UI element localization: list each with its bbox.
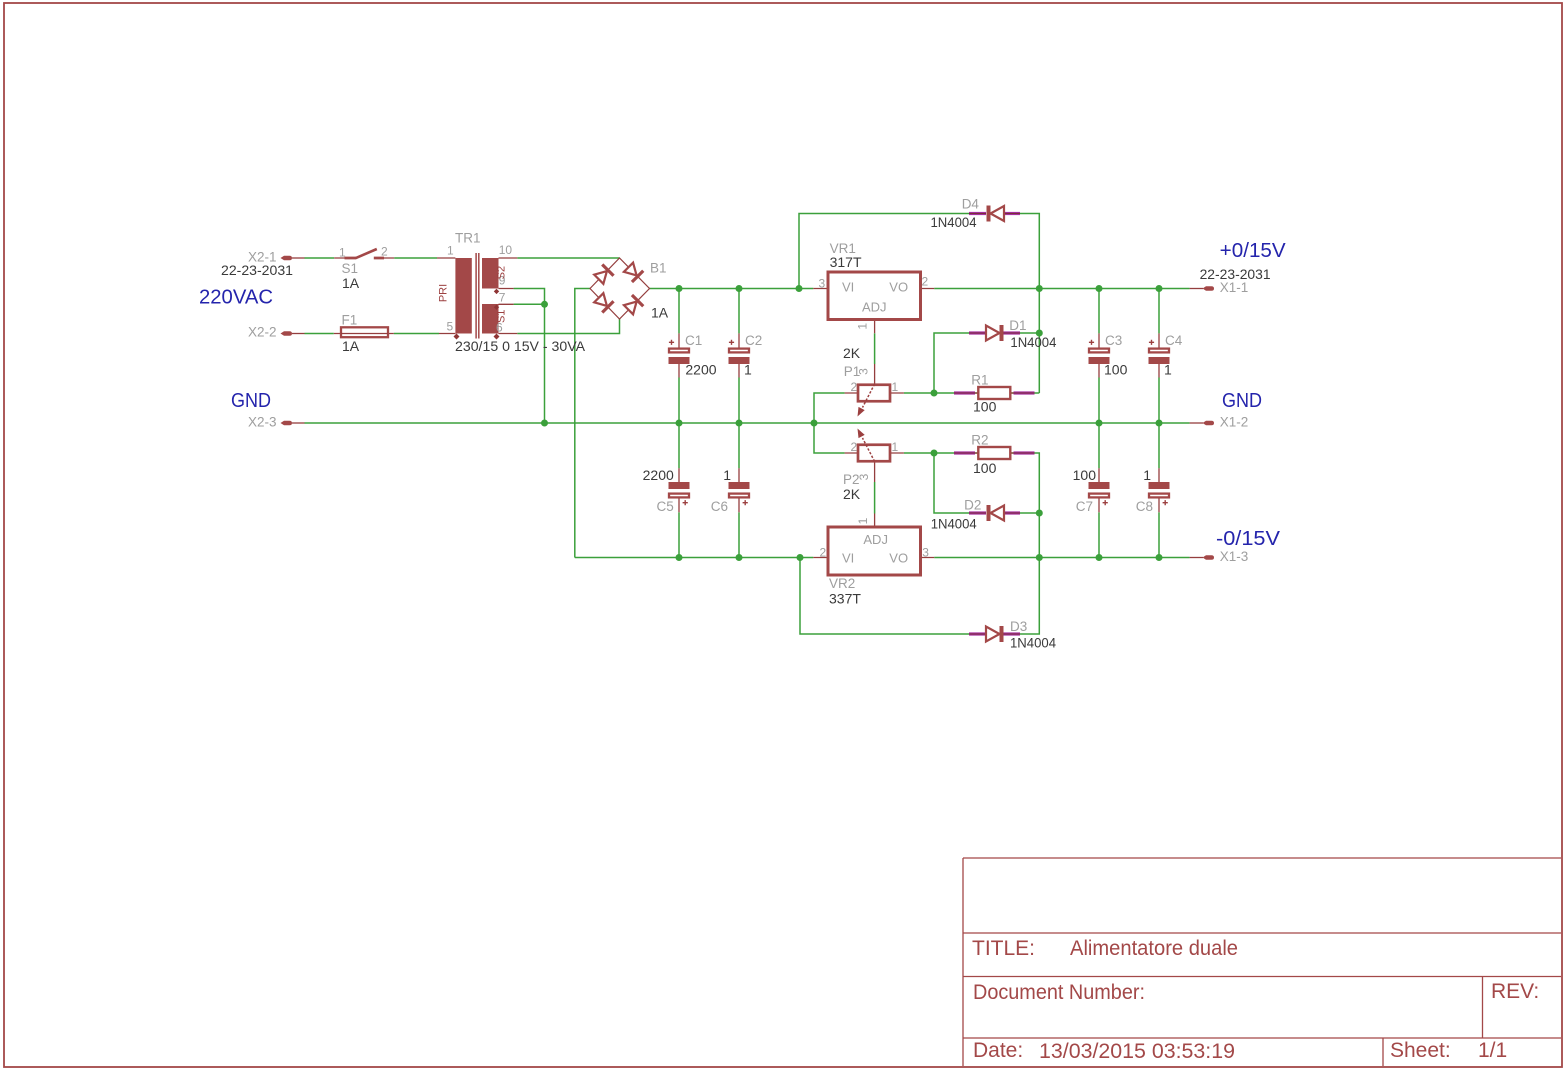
wire C7 upper lead: [1098, 423, 1100, 468]
svg-text:TITLE:: TITLE:: [972, 937, 1035, 960]
capacitor C2: [729, 333, 750, 377]
svg-text:C4: C4: [1165, 333, 1183, 348]
wire C2 lower lead to GND: [738, 378, 740, 424]
diode D1: [969, 325, 1020, 341]
svg-text:VR2: VR2: [829, 576, 855, 591]
svg-text:Date:: Date:: [973, 1039, 1023, 1062]
svg-text:F1: F1: [342, 313, 358, 328]
wire D1 cathode to column: [1020, 332, 1039, 334]
wire C3 lower lead: [1098, 378, 1100, 424]
wire S1 pin2 to TR1 pin1: [394, 257, 437, 259]
wire C4 upper lead: [1158, 289, 1160, 334]
junction C2 bottom GND: [736, 420, 743, 427]
svg-text:1N4004: 1N4004: [931, 214, 977, 230]
potentiometer P2: [845, 429, 904, 483]
svg-text:22-23-2031: 22-23-2031: [221, 262, 293, 278]
junction C8 bottom: [1156, 554, 1163, 561]
bridge rectifier B1: [590, 258, 650, 319]
svg-text:X1-3: X1-3: [1220, 549, 1249, 564]
svg-text:R1: R1: [971, 373, 988, 388]
svg-text:2K: 2K: [843, 345, 861, 361]
transformer TR1: [437, 253, 517, 340]
svg-text:R2: R2: [971, 433, 988, 448]
wire C2 upper lead: [738, 289, 740, 334]
svg-text:1/1: 1/1: [1478, 1039, 1507, 1062]
junction C4 C8 GND: [1156, 420, 1163, 427]
svg-text:Document Number:: Document Number:: [973, 981, 1145, 1004]
svg-text:S1: S1: [342, 261, 359, 276]
wire R2 node down to D2 anode: [934, 453, 969, 513]
svg-text:1N4004: 1N4004: [1010, 334, 1056, 350]
svg-text:2K: 2K: [843, 486, 861, 502]
svg-text:2: 2: [851, 440, 858, 454]
wire P1 pin1 to R1 node: [904, 392, 934, 394]
svg-text:C7: C7: [1076, 499, 1093, 514]
svg-text:+0/15V: +0/15V: [1220, 240, 1287, 262]
svg-text:1: 1: [744, 362, 752, 378]
wire C8 lower lead: [1158, 512, 1160, 557]
svg-text:C2: C2: [745, 333, 762, 348]
svg-text:3: 3: [922, 546, 929, 560]
svg-text:C8: C8: [1136, 499, 1153, 514]
svg-text:C6: C6: [711, 499, 728, 514]
junction VR1 VI node: [796, 285, 803, 292]
junction D2 cathode column: [1036, 510, 1043, 517]
wire C6 upper lead: [738, 423, 740, 468]
svg-text:D2: D2: [964, 498, 981, 513]
svg-text:ADJ: ADJ: [863, 532, 888, 547]
potentiometer P1: [845, 364, 904, 417]
wire D3 cathode to column: [1020, 558, 1039, 635]
svg-text:X2-2: X2-2: [248, 325, 277, 340]
wire TR1 pin10 to bridge top corner: [517, 257, 619, 259]
svg-text:5: 5: [447, 320, 454, 334]
svg-text:1N4004: 1N4004: [1010, 635, 1056, 651]
wire fuse F1 to TR1 pin5: [394, 333, 439, 335]
svg-text:3: 3: [857, 368, 871, 375]
svg-text:1: 1: [856, 517, 870, 524]
wire D4 cathode side to vertical: [1020, 214, 1039, 289]
wire vertical D4/D1/R1 column: [1038, 289, 1040, 394]
svg-text:317T: 317T: [830, 254, 862, 270]
wire D2 cathode to column: [1020, 512, 1039, 514]
junction R2 P2 node: [931, 450, 938, 457]
junction TR1 center tap: [541, 301, 548, 308]
wire center tap down to GND rail: [544, 304, 546, 423]
svg-text:1A: 1A: [651, 305, 669, 321]
junction C5 bottom: [676, 554, 683, 561]
connector pin X2-3: [281, 421, 305, 426]
svg-text:22-23-2031: 22-23-2031: [1200, 266, 1271, 282]
wire X2-1 to S1 pin1: [305, 257, 335, 259]
junction C3 C7 GND: [1096, 420, 1103, 427]
capacitor C3: [1089, 333, 1110, 377]
svg-text:2: 2: [922, 275, 929, 289]
svg-text:GND: GND: [1222, 390, 1262, 412]
svg-text:1: 1: [447, 244, 454, 258]
svg-text:VO: VO: [889, 551, 908, 566]
svg-text:D3: D3: [1010, 619, 1027, 634]
resistor R1: [954, 387, 1035, 399]
svg-text:220VAC: 220VAC: [199, 287, 273, 309]
junction C1 top: [676, 285, 683, 292]
wire C3 upper lead: [1098, 289, 1100, 334]
wire VR1 VI node up to D4: [799, 214, 969, 289]
svg-text:2: 2: [820, 546, 827, 560]
connector pin X1-1: [1190, 286, 1214, 291]
connector pin X1-2: [1190, 421, 1214, 426]
diode D4: [969, 206, 1020, 222]
svg-text:2200: 2200: [643, 467, 674, 483]
wire C5 upper lead: [678, 423, 680, 468]
wire R2 right lead down column: [1011, 453, 1040, 558]
svg-text:100: 100: [1073, 467, 1097, 483]
svg-text:Sheet:: Sheet:: [1390, 1039, 1451, 1062]
svg-text:B1: B1: [650, 261, 667, 276]
svg-text:TR1: TR1: [455, 231, 481, 246]
junction C2 top: [736, 285, 743, 292]
junction P1 P2 GND: [811, 420, 818, 427]
wire VR1 VO to X1-1: [934, 288, 1189, 290]
wire P2 pin2 to GND rail: [814, 423, 845, 453]
junction VR1 VO / D4 column: [1036, 285, 1043, 292]
title block frame: [963, 858, 1561, 1066]
svg-text:1A: 1A: [342, 338, 360, 354]
wire GND rail: [305, 422, 1190, 424]
svg-text:1: 1: [892, 380, 899, 394]
wire C5 lower lead: [678, 512, 680, 557]
wire TR1 pin7 to center tap node: [514, 303, 545, 305]
junction VR2 VO column: [1036, 554, 1043, 561]
svg-text:2: 2: [851, 380, 858, 394]
svg-text:1: 1: [1164, 362, 1172, 378]
svg-text:C5: C5: [657, 499, 674, 514]
svg-text:1: 1: [856, 323, 870, 330]
wire positive rail bridge to VR1 VI: [650, 288, 814, 290]
svg-text:3: 3: [819, 277, 826, 291]
svg-text:-0/15V: -0/15V: [1216, 528, 1281, 550]
svg-text:1: 1: [723, 467, 731, 483]
capacitor C5: [669, 468, 690, 512]
svg-text:REV:: REV:: [1491, 980, 1539, 1003]
svg-text:7: 7: [499, 291, 506, 305]
svg-text:VO: VO: [889, 280, 908, 295]
svg-text:100: 100: [973, 460, 997, 476]
capacitor C8: [1149, 468, 1170, 512]
switch S1: [334, 249, 394, 258]
svg-text:C1: C1: [685, 333, 702, 348]
wire C1 upper lead: [678, 289, 680, 334]
wire P1 pin2 to GND rail: [814, 393, 845, 423]
regulator VR1: [813, 272, 934, 333]
regulator VR2: [813, 514, 934, 576]
capacitor C7: [1089, 468, 1110, 512]
wire R1 node up to D1 anode: [934, 333, 969, 393]
wire R1 right lead to column: [1011, 392, 1040, 394]
wire R2 left lead: [934, 452, 978, 454]
resistor R2: [954, 447, 1035, 459]
svg-text:VI: VI: [842, 280, 854, 295]
svg-text:D4: D4: [962, 196, 980, 211]
junction R1 P1 node: [931, 390, 938, 397]
wire P2 pin1 to R2 node: [904, 452, 934, 454]
wire C6 lower lead: [738, 512, 740, 557]
wire C4 lower lead: [1158, 378, 1160, 424]
wire R1 left lead: [934, 392, 978, 394]
svg-text:3: 3: [857, 473, 871, 480]
wire bridge left corner down to negative rail: [575, 289, 590, 558]
svg-text:X2-3: X2-3: [248, 415, 277, 430]
svg-text:1: 1: [892, 440, 899, 454]
svg-text:S1: S1: [496, 310, 508, 323]
connector pin X2-1: [281, 256, 305, 261]
svg-text:Alimentatore duale: Alimentatore duale: [1070, 937, 1238, 960]
wire X2-2 to fuse F1: [305, 333, 334, 335]
svg-text:1: 1: [1143, 467, 1151, 483]
svg-text:10: 10: [499, 243, 513, 257]
svg-text:1A: 1A: [342, 275, 360, 291]
svg-text:VI: VI: [842, 551, 854, 566]
capacitor C6: [729, 468, 750, 512]
wire negative rail to VR2 VI: [575, 557, 814, 559]
svg-text:2: 2: [381, 245, 388, 259]
svg-text:100: 100: [973, 399, 997, 415]
svg-text:S2: S2: [496, 266, 508, 279]
svg-text:ADJ: ADJ: [862, 300, 887, 315]
junction C1 bottom GND: [676, 420, 683, 427]
svg-text:X1-1: X1-1: [1220, 280, 1249, 295]
wire P2 pin3 to VR2 ADJ: [874, 482, 876, 514]
junction C7 bottom: [1096, 554, 1103, 561]
wire C8 upper lead: [1158, 423, 1160, 468]
wire C1 lower lead to GND: [678, 378, 680, 424]
wire VR2 VI node down to D3 anode: [800, 558, 969, 635]
connector pin X2-2: [281, 331, 305, 336]
svg-text:2200: 2200: [685, 362, 716, 378]
wire VR2 VO to X1-3: [934, 557, 1189, 559]
wire TR1 pin6 to bridge bottom corner: [517, 319, 619, 334]
wire TR1 pin9 down to center tap node: [514, 289, 545, 305]
svg-text:337T: 337T: [829, 591, 861, 607]
svg-text:C3: C3: [1105, 333, 1122, 348]
connector pin X1-3: [1190, 555, 1214, 560]
svg-text:1N4004: 1N4004: [931, 516, 977, 532]
diode D2: [969, 505, 1020, 521]
svg-text:13/03/2015 03:53:19: 13/03/2015 03:53:19: [1039, 1040, 1235, 1063]
svg-text:D1: D1: [1009, 318, 1026, 333]
junction C4 top: [1156, 285, 1163, 292]
capacitor C4: [1149, 333, 1170, 377]
svg-text:1: 1: [339, 246, 346, 260]
svg-text:X1-2: X1-2: [1220, 415, 1249, 430]
svg-text:100: 100: [1104, 362, 1128, 378]
junction C6 bottom: [736, 554, 743, 561]
svg-text:PRI: PRI: [438, 284, 450, 302]
junction D3 anode node: [797, 554, 804, 561]
diode D3: [969, 626, 1020, 642]
wire C7 lower lead: [1098, 512, 1100, 557]
junction D1 cathode column: [1036, 330, 1043, 337]
wire VR1 ADJ to P1 pin3: [874, 333, 876, 364]
capacitor C1: [669, 333, 690, 377]
junction center tap GND: [541, 420, 548, 427]
svg-text:GND: GND: [231, 390, 271, 412]
fuse F1: [334, 327, 394, 337]
junction C3 top: [1096, 285, 1103, 292]
svg-text:230/15 0 15V - 30VA: 230/15 0 15V - 30VA: [455, 338, 586, 354]
